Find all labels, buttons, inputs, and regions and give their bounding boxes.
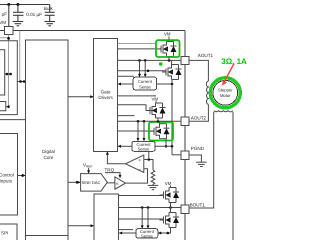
svg-text:Drivers: Drivers	[98, 95, 113, 100]
svg-text:AOUT1: AOUT1	[198, 53, 214, 58]
svg-text:PGND: PGND	[191, 146, 205, 151]
svg-text:Digital: Digital	[42, 149, 55, 154]
svg-text:Core: Core	[44, 155, 54, 160]
svg-text:Bulk: Bulk	[44, 6, 54, 11]
svg-text:Gate: Gate	[101, 89, 111, 94]
svg-text:µF: µF	[2, 12, 8, 17]
svg-text:Sense: Sense	[138, 147, 151, 152]
svg-text:Inputs: Inputs	[0, 179, 13, 184]
svg-text:VM: VM	[164, 32, 171, 37]
svg-text:+: +	[139, 158, 142, 163]
svg-text:Sense: Sense	[139, 84, 152, 89]
svg-text:VM: VM	[152, 96, 159, 101]
svg-text:SPI: SPI	[1, 230, 8, 235]
svg-text:0.01 µF: 0.01 µF	[26, 12, 42, 17]
svg-text:BOUT1: BOUT1	[190, 202, 206, 207]
svg-text:SINE DAC: SINE DAC	[82, 180, 101, 185]
svg-text:VREF: VREF	[83, 163, 93, 169]
svg-text:VM: VM	[165, 181, 172, 186]
svg-text:Control: Control	[0, 173, 14, 178]
svg-text:AOUT2: AOUT2	[191, 116, 207, 121]
svg-text:Stepper: Stepper	[218, 88, 233, 93]
svg-text:VM: VM	[0, 20, 6, 25]
svg-text:TRQ: TRQ	[105, 167, 115, 172]
svg-text:Motor: Motor	[220, 93, 231, 98]
svg-text:Sense: Sense	[141, 234, 154, 239]
svg-text:−: −	[138, 167, 141, 172]
